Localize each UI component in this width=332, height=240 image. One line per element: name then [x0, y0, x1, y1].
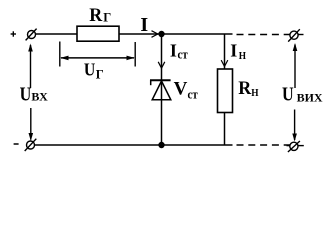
label I [140, 14, 148, 36]
svg-text:ст: ст [178, 48, 188, 62]
Uвих measurement arrow upper segment [293, 43, 298, 88]
Uвих measurement arrow lower segment [292, 110, 297, 142]
zener diode Vст cathode bar [150, 80, 171, 85]
svg-text:Г: Г [103, 11, 111, 25]
terminal bottom-right (output) [287, 141, 304, 152]
svg-text:ст: ст [188, 88, 198, 102]
label Uвх [20, 83, 49, 105]
dimension Uг right tick [134, 42, 136, 67]
label Rг [89, 4, 111, 26]
label Uвих [282, 83, 323, 105]
svg-text:I: I [170, 40, 177, 60]
terminal top-right (output) [288, 29, 303, 41]
dashed wire to output terminal top [237, 34, 291, 36]
wire from resistor Rг to node A [119, 33, 161, 35]
svg-text:U: U [20, 83, 32, 105]
minus sign [14, 143, 19, 145]
node B junction dot bottom [158, 142, 164, 148]
resistor Rг body [77, 26, 119, 41]
bottom wire [35, 144, 233, 146]
terminal top-left (input +) [26, 29, 37, 41]
zener diode Vст triangle [152, 81, 171, 100]
svg-text:ВХ: ВХ [31, 90, 48, 104]
dashed bottom wire to output terminal [237, 144, 291, 146]
svg-text:V: V [174, 78, 188, 99]
svg-text:U: U [282, 83, 294, 105]
svg-text:R: R [89, 4, 102, 26]
label Vст [174, 78, 198, 101]
Uвх measurement arrow lower segment [29, 108, 34, 141]
plus sign [11, 31, 16, 36]
dimension Uг left tick [59, 42, 61, 67]
svg-text:R: R [238, 77, 251, 99]
wire node A to load branch [162, 33, 233, 35]
label Iст [170, 40, 188, 61]
wire load branch down to resistor Rн [224, 34, 226, 69]
wire top from input terminal to resistor Rg [36, 33, 78, 35]
svg-text:Н: Н [239, 50, 246, 62]
dimension Uг double arrow [60, 56, 134, 61]
terminal bottom-left (input -) [25, 139, 37, 151]
Uвх measurement arrow upper segment [28, 44, 33, 89]
svg-text:Н: Н [251, 87, 258, 99]
label Iн [230, 40, 246, 62]
current arrow Iн (open head) [221, 60, 228, 66]
resistor Rн body [218, 69, 233, 113]
svg-text:Г: Г [96, 68, 104, 82]
node A junction dot top [158, 31, 164, 37]
svg-text:I: I [230, 40, 237, 60]
wire node A down through zener to bottom node [161, 34, 163, 145]
label Uг [84, 60, 104, 82]
svg-text:ВИХ: ВИХ [297, 91, 323, 105]
wire resistor Rн to bottom wire [224, 113, 226, 146]
current arrow I (open head) [152, 31, 158, 38]
svg-text:I: I [140, 14, 148, 36]
svg-text:U: U [84, 60, 95, 80]
current arrow Iст (open head) [158, 62, 165, 68]
label Rн [238, 77, 258, 99]
